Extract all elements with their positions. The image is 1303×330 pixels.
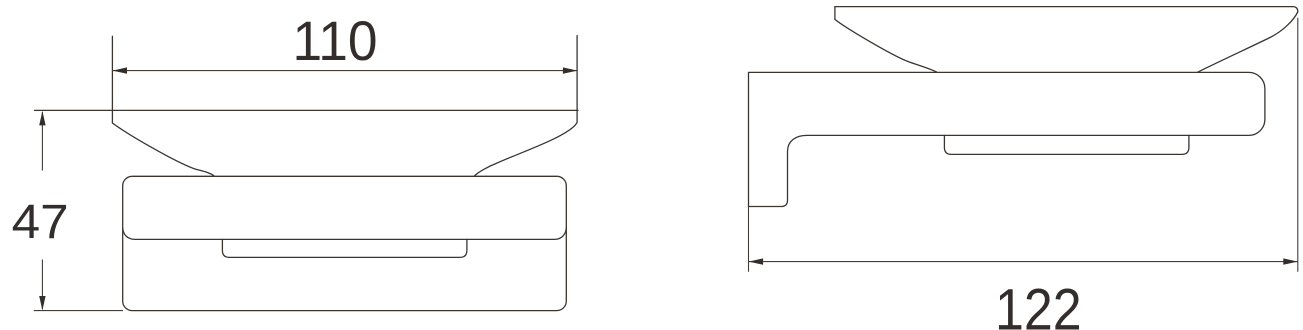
arrowhead right of 122 dimension: [1283, 258, 1298, 264]
svg-text:110: 110: [293, 9, 378, 72]
dimension line 122: [749, 261, 1297, 263]
dimension 122 left extension line: [748, 207, 750, 272]
side view: dish left silhouette: [835, 7, 937, 73]
dimension 122 right extension line: [1297, 18, 1299, 272]
svg-text:122: 122: [995, 278, 1082, 330]
arrowhead bottom of 47 dimension: [39, 296, 45, 311]
side view: dish right silhouette: [1197, 12, 1298, 73]
dimension 47 vertical line lower segment: [41, 260, 43, 310]
dimension line 110: [113, 70, 577, 72]
arrowhead left of 122 dimension: [749, 258, 764, 264]
side view: holder inner slot (dish lip): [944, 135, 1189, 154]
arrowhead right of 110 dimension: [563, 67, 578, 73]
svg-text:47: 47: [12, 195, 69, 249]
front view: soap dish top edge line (also 47-dim top extension): [35, 109, 579, 111]
front view: holder outer rounded rectangle: [123, 176, 567, 310]
arrowhead top of 47 dimension: [39, 111, 45, 126]
front view: dish left silhouette + left extension line of 110 dimension: [112, 36, 214, 176]
front view: holder top plate bottom edge (divider with rounded ends): [123, 228, 567, 239]
dimension 47 bottom extension line: [34, 310, 123, 312]
side view: wall bracket and arm outline: [749, 72, 1265, 206]
front view: holder inner slot: [222, 239, 467, 257]
dimension 47 vertical line upper segment: [41, 112, 43, 171]
side view: dish top edge line with rounded right tip: [835, 7, 1298, 12]
arrowhead left of 110 dimension: [113, 67, 128, 73]
front view: dish right silhouette + right extension line of 110 dimension: [474, 36, 577, 177]
